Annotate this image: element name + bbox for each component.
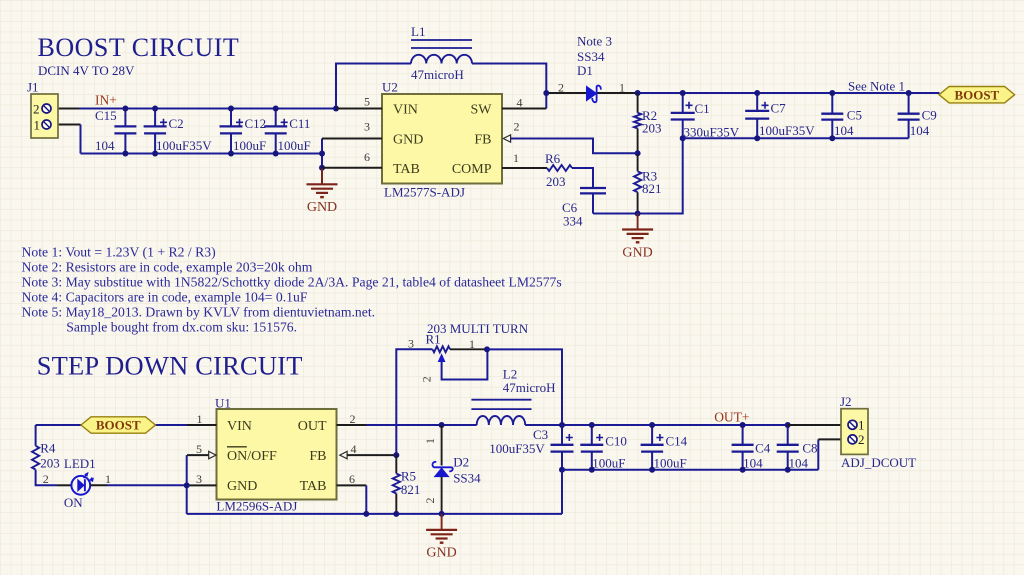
svg-text:U2: U2 [382,80,398,95]
svg-text:D2: D2 [453,455,469,470]
svg-text:Note 3: Note 3 [577,34,612,49]
svg-text:Sample bought from dx.com sku:: Sample bought from dx.com sku: 151576. [66,320,297,335]
wire OUT row to L2 [367,424,477,426]
wire pin5/pin3 tie down to gnd rail [186,455,188,514]
svg-text:C5: C5 [847,108,862,123]
wire bottom ground rail left [81,153,323,155]
svg-text:C8: C8 [802,440,817,455]
junction C9 top [906,90,912,96]
svg-text:100uF: 100uF [592,456,625,471]
junction C11 bottom [273,151,279,157]
svg-text:IN+: IN+ [95,92,117,107]
svg-text:LED1: LED1 [64,456,96,471]
connector J1 [31,94,58,138]
svg-text:VIN: VIN [227,419,252,434]
svg-text:BOOST: BOOST [96,418,141,433]
junction OUT / D2 / L2 [439,422,445,428]
junction C8 top [785,422,791,428]
junction TAB x322 [319,165,325,171]
resistor R5 [395,455,397,514]
svg-text:COMP: COMP [452,162,492,177]
junction C15 bottom [122,151,128,157]
svg-text:J1: J1 [27,80,39,95]
svg-text:C1: C1 [695,101,710,116]
diode D2 SS34 [441,425,443,466]
wire port to U1 VIN [157,424,187,426]
op-amp-style IC U2 LM2577S-ADJ [382,94,502,184]
wire top rail right to BOOST port [638,92,940,94]
svg-text:SS34: SS34 [577,49,605,64]
svg-text:SW: SW [471,103,493,118]
svg-text:C7: C7 [771,101,787,116]
junction C5 bottom [829,135,835,141]
svg-text:LM2596S-ADJ: LM2596S-ADJ [216,499,297,514]
junction C7 bottom [754,135,760,141]
wire C3 bottom continue to gnd rail [561,470,563,514]
capacitor C7 [756,93,758,138]
svg-text:GND: GND [393,133,423,148]
svg-text:ADJ_DCOUT: ADJ_DCOUT [841,455,916,470]
svg-text:OUT+: OUT+ [714,410,749,425]
junction C4 bottom [740,467,746,473]
capacitor C4 [742,425,744,470]
capacitor C10 [591,425,593,470]
svg-text:104: 104 [834,123,854,138]
svg-text:R6: R6 [545,151,561,166]
U1 pin 5 stub with arrow [187,454,209,456]
resistor R2 [637,93,639,153]
svg-text:1: 1 [423,438,437,444]
wire R1 node down to output rail [487,349,562,425]
ground symbol GND mid [637,214,639,230]
svg-text:6: 6 [349,472,355,486]
junction top rail / L1 branch [333,106,339,112]
junction C1 / gnd rail right [680,135,686,141]
junction C8 bottom [785,467,791,473]
junction FB / R5 [393,452,399,458]
junction C10 top [589,422,595,428]
junction C5 top [829,90,835,96]
svg-text:2: 2 [858,432,865,447]
svg-text:See Note 1: See Note 1 [848,78,905,93]
wire GND drop at x322 [321,139,323,185]
svg-text:R1: R1 [426,332,441,347]
U2 pin 4 stub (SW) [502,108,546,110]
svg-text:47microH: 47microH [411,67,464,82]
junction C7 top [754,90,760,96]
U2 pin 5 stub [336,108,382,110]
svg-text:Note 5: May18_2013. Drawn by K: Note 5: May18_2013. Drawn by KVLV from d… [22,305,376,320]
svg-text:L1: L1 [411,24,425,39]
junction C2 top [152,106,158,112]
svg-text:GND: GND [426,546,456,561]
svg-text:Note 4: Capacitors are in code: Note 4: Capacitors are in code, example … [22,290,308,305]
svg-text:821: 821 [642,181,662,196]
svg-text:2: 2 [33,102,40,117]
svg-text:C3: C3 [533,427,548,442]
svg-text:Note 2: Resistors are in code,: Note 2: Resistors are in code, example 2… [22,260,313,275]
capacitor C6 [580,187,606,189]
svg-text:4: 4 [351,442,357,456]
svg-text:R4: R4 [40,441,56,456]
svg-text:GND: GND [622,245,652,260]
wire bottom gnd rail [187,513,562,515]
svg-text:203: 203 [546,174,566,189]
J1 pin 1 [42,120,51,129]
svg-text:2: 2 [423,498,437,504]
svg-text:6: 6 [364,150,370,164]
U1 pin 2 stub (OUT) [337,424,367,426]
svg-text:1: 1 [34,118,41,133]
wire top rail from J1 to L1 junction [51,108,79,110]
junction GND node below R3 [635,211,641,217]
svg-text:STEP DOWN CIRCUIT: STEP DOWN CIRCUIT [37,351,303,381]
junction C10 bottom [589,467,595,473]
junction D1 cathode / R2 [635,90,641,96]
svg-text:5: 5 [196,442,202,456]
capacitor C1 [682,93,684,113]
svg-text:ON: ON [64,495,83,510]
svg-text:C4: C4 [755,440,771,455]
svg-text:BOOST CIRCUIT: BOOST CIRCUIT [38,33,240,62]
wire TAB down to gnd rail [365,485,367,514]
wire LED to U1 pin3 [90,484,107,486]
ground symbol GND bottom [441,514,443,530]
junction C2 bottom [152,151,158,157]
svg-text:4: 4 [517,96,523,110]
resistor R4 [32,446,39,470]
svg-text:104: 104 [910,123,930,138]
svg-text:D1: D1 [577,63,593,78]
R1 wire to junction [450,348,487,350]
svg-text:DCIN 4V TO 28V: DCIN 4V TO 28V [38,63,135,78]
J2 pin 1 [848,420,857,429]
svg-text:2: 2 [514,120,520,134]
svg-text:104: 104 [789,456,809,471]
svg-text:OUT: OUT [298,419,327,434]
capacitor C8 [787,425,789,470]
capacitor C2 [154,109,156,154]
svg-text:2: 2 [43,472,49,486]
svg-text:Note 3: May substitue with 1N5: Note 3: May substitue with 1N5822/Schott… [22,275,562,290]
wire R6 to C6 [572,168,593,188]
U1 pin 6 stub (TAB) [337,484,367,486]
junction gnd rail x322 [319,151,325,157]
resistor R3 [637,153,639,213]
svg-text:C12: C12 [245,116,267,131]
svg-text:100uF: 100uF [654,456,687,471]
wire J2 pin2 loop [817,439,819,469]
connector J2 [841,409,868,455]
IC U1 LM2596S-ADJ [217,409,337,500]
power port BOOST top [939,87,1015,103]
svg-text:2: 2 [420,376,434,382]
wire gnd rail right side [683,137,909,139]
svg-text:C2: C2 [169,116,184,131]
svg-text:C11: C11 [289,116,310,131]
diode D1 SS34 row wire [546,92,637,94]
svg-text:3: 3 [196,472,202,486]
capacitor C5 [831,93,833,138]
svg-text:330uF35V: 330uF35V [684,125,740,140]
svg-text:3: 3 [408,337,414,351]
junction C12 top [228,106,234,112]
junction C11 top [273,106,279,112]
junction pin3/pin5/LED node [184,482,190,488]
junction C4 top [740,422,746,428]
svg-text:FB: FB [309,449,326,464]
junction C1 top [680,90,686,96]
U2 pin 1 stub (COMP) [502,167,547,169]
svg-text:J2: J2 [840,394,852,409]
junction D2/gnd rail [439,511,445,517]
wire J1 pin1 to ground rail [51,124,80,126]
wire R4 to LED row [36,470,57,486]
inductor L1 [411,40,472,48]
svg-text:5: 5 [364,95,370,109]
diode D1 symbol [587,86,597,100]
svg-text:334: 334 [563,214,583,229]
svg-text:104: 104 [743,456,763,471]
svg-text:FB: FB [474,133,491,148]
svg-text:SS34: SS34 [453,471,481,486]
junction D1 anode branch [543,90,549,96]
svg-text:C9: C9 [922,108,937,123]
wire FB node up to R1 pin3 [396,349,432,455]
capacitor C3 [561,425,563,470]
R1 wiper arrow and pin 2 loop [438,353,446,362]
junction C12 bottom [228,151,234,157]
svg-text:203: 203 [40,455,60,470]
svg-text:BOOST: BOOST [954,87,999,102]
J1 pin 2 [42,104,51,113]
junction C14 bottom [649,467,655,473]
junction TAB/gnd rail [363,511,369,517]
svg-text:821: 821 [401,482,421,497]
wire FB pin2 to divider node [511,139,638,154]
capacitor C9 [908,93,910,138]
svg-text:3: 3 [364,120,370,134]
svg-text:2: 2 [558,81,564,95]
svg-text:1: 1 [513,151,519,165]
junction R2/R3/FB node [635,150,641,156]
resistor R6 [547,165,572,171]
U1 pin 3 stub [187,484,217,486]
wire C6/GND bottom to C1 drop [593,120,683,214]
U1 pin 4 stub (FB) with arrow [347,454,396,456]
J2 pin 2 [848,435,857,444]
capacitor C15 [124,109,126,154]
svg-text:203 MULTI TURN: 203 MULTI TURN [427,321,529,336]
junction C15 top [122,106,128,112]
svg-text:VIN: VIN [393,103,418,118]
junction rail/C3/R1 [559,422,565,428]
svg-text:1: 1 [197,412,203,426]
svg-text:Note 1: Vout = 1.23V (1 + R2 /: Note 1: Vout = 1.23V (1 + R2 / R3) [22,245,216,261]
wire L1 branch up and over [336,64,546,109]
J2 pin stubs [788,424,848,426]
svg-text:1: 1 [619,81,625,95]
svg-text:C15: C15 [95,108,117,123]
ground symbol GND top-left [321,168,323,184]
junction C14 top [649,422,655,428]
junction R1/wiper/output [484,346,490,352]
U1 pin 1 stub [187,424,217,426]
svg-text:100uF35V: 100uF35V [156,138,212,153]
power port BOOST bottom [81,417,156,433]
svg-text:TAB: TAB [393,162,420,177]
capacitor C14 [651,425,653,470]
svg-text:100uF: 100uF [233,138,266,153]
junction R5/gnd rail [393,511,399,517]
svg-text:ON/OFF: ON/OFF [227,449,277,464]
wire R4 branch vertical top [35,425,37,446]
svg-text:100uF35V: 100uF35V [759,123,815,138]
svg-text:U1: U1 [215,396,231,411]
svg-text:1: 1 [105,472,111,486]
svg-text:GND: GND [307,200,337,215]
svg-text:100uF: 100uF [278,138,311,153]
svg-text:100uF35V: 100uF35V [489,441,545,456]
inductor L2 [471,400,531,409]
capacitor C11 [275,109,277,154]
wire BOOST feed row [36,424,187,426]
wire output rail top [525,424,788,426]
U2 pin 6 stub [322,167,382,169]
wire output bottom rail [562,469,818,471]
svg-text:47microH: 47microH [503,380,556,395]
capacitor C12 [230,109,232,154]
svg-text:203: 203 [642,121,662,136]
U2 pin 2 stub (FB) with input arrow [503,135,510,142]
svg-text:104: 104 [95,138,115,153]
svg-text:TAB: TAB [300,479,327,494]
svg-text:C14: C14 [666,433,688,448]
svg-text:C10: C10 [605,433,627,448]
svg-text:2: 2 [350,412,356,426]
U2 pin 3 stub [322,138,382,140]
svg-text:LM2577S-ADJ: LM2577S-ADJ [384,185,465,200]
svg-text:GND: GND [227,479,257,494]
svg-text:1: 1 [858,418,865,433]
junction C3 bottom [559,467,565,473]
